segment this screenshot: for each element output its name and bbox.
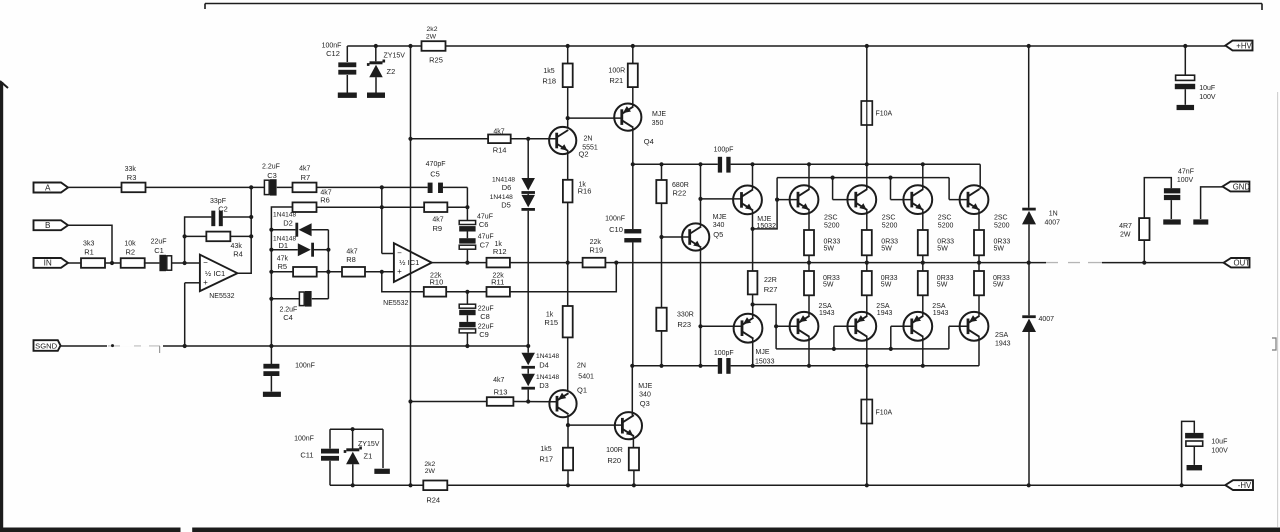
- svg-text:NE5532: NE5532: [209, 293, 234, 300]
- svg-text:100nF: 100nF: [295, 363, 315, 370]
- svg-text:3k3: 3k3: [83, 241, 94, 248]
- svg-text:1N4148: 1N4148: [536, 374, 559, 381]
- svg-text:½ IC1: ½ IC1: [205, 269, 225, 278]
- svg-text:Q5: Q5: [713, 230, 723, 239]
- svg-text:2SC: 2SC: [882, 214, 896, 221]
- svg-text:4007: 4007: [1039, 316, 1055, 323]
- svg-text:10uF: 10uF: [1199, 85, 1215, 92]
- svg-text:2N: 2N: [584, 136, 593, 143]
- svg-text:R21: R21: [609, 76, 623, 85]
- svg-text:NE5532: NE5532: [383, 300, 408, 307]
- svg-text:1943: 1943: [877, 310, 893, 317]
- svg-text:47nF: 47nF: [1178, 169, 1194, 176]
- svg-text:22R: 22R: [764, 277, 777, 284]
- svg-text:MJE: MJE: [713, 214, 727, 221]
- svg-text:100nF: 100nF: [605, 216, 625, 223]
- svg-text:R1: R1: [84, 248, 94, 257]
- svg-text:100V: 100V: [1199, 94, 1216, 101]
- svg-text:2SA: 2SA: [876, 303, 890, 310]
- svg-text:R20: R20: [607, 456, 621, 465]
- svg-text:Q4: Q4: [644, 137, 654, 146]
- svg-text:C9: C9: [479, 330, 489, 339]
- svg-text:2W: 2W: [425, 468, 436, 475]
- svg-text:R2: R2: [126, 248, 136, 257]
- svg-text:ZY15V: ZY15V: [384, 53, 406, 60]
- svg-text:100pF: 100pF: [714, 147, 734, 154]
- svg-text:D3: D3: [539, 381, 549, 390]
- svg-text:+: +: [397, 267, 402, 276]
- svg-text:1k5: 1k5: [543, 68, 554, 75]
- svg-text:R3: R3: [127, 173, 137, 182]
- svg-text:1N: 1N: [1049, 211, 1058, 218]
- svg-text:R7: R7: [301, 173, 311, 182]
- svg-text:D6: D6: [502, 183, 512, 192]
- svg-text:D2: D2: [283, 218, 293, 227]
- svg-text:D1: D1: [279, 241, 289, 250]
- svg-text:OUT: OUT: [1234, 259, 1251, 268]
- svg-text:4k7: 4k7: [493, 377, 504, 384]
- svg-text:IN: IN: [44, 259, 52, 268]
- svg-text:2k2: 2k2: [427, 26, 438, 33]
- svg-text:R9: R9: [433, 224, 443, 233]
- svg-text:+: +: [203, 278, 208, 287]
- svg-text:C10: C10: [609, 225, 623, 234]
- svg-text:100V: 100V: [1211, 448, 1228, 455]
- svg-text:5200: 5200: [938, 222, 954, 229]
- svg-text:2SC: 2SC: [824, 214, 838, 221]
- svg-text:R16: R16: [578, 186, 592, 195]
- svg-text:B: B: [45, 221, 51, 230]
- svg-text:5W: 5W: [824, 245, 835, 252]
- svg-text:100nF: 100nF: [294, 436, 314, 443]
- svg-text:R11: R11: [491, 278, 504, 287]
- svg-text:+HV: +HV: [1236, 41, 1252, 50]
- svg-text:R17: R17: [539, 455, 553, 464]
- svg-text:4k7: 4k7: [493, 129, 504, 136]
- svg-text:ZY15V: ZY15V: [358, 441, 380, 448]
- svg-text:GND: GND: [1233, 182, 1251, 191]
- svg-text:F10A: F10A: [876, 410, 893, 417]
- svg-text:5W: 5W: [994, 245, 1005, 252]
- svg-text:2k2: 2k2: [424, 461, 435, 468]
- svg-text:470pF: 470pF: [426, 161, 446, 168]
- svg-text:5W: 5W: [823, 282, 834, 289]
- svg-text:Q1: Q1: [577, 386, 587, 395]
- svg-text:1N4148: 1N4148: [536, 353, 559, 360]
- svg-text:Z1: Z1: [364, 452, 373, 461]
- svg-text:R23: R23: [677, 320, 691, 329]
- svg-text:R15: R15: [544, 318, 558, 327]
- svg-text:−: −: [203, 258, 208, 267]
- svg-text:R24: R24: [426, 496, 440, 505]
- svg-text:2SA: 2SA: [932, 303, 946, 310]
- svg-text:−: −: [397, 248, 402, 257]
- svg-text:5W: 5W: [937, 245, 948, 252]
- svg-text:4R7: 4R7: [1119, 223, 1132, 230]
- svg-text:Q3: Q3: [640, 399, 650, 408]
- svg-text:C4: C4: [283, 313, 293, 322]
- svg-text:5W: 5W: [993, 282, 1004, 289]
- svg-text:2SC: 2SC: [938, 214, 952, 221]
- svg-text:R14: R14: [493, 146, 507, 155]
- svg-text:5200: 5200: [994, 222, 1010, 229]
- svg-text:2N: 2N: [577, 362, 586, 369]
- svg-text:R4: R4: [233, 250, 243, 259]
- svg-text:100pF: 100pF: [714, 350, 734, 357]
- svg-text:-HV: -HV: [1238, 481, 1252, 490]
- svg-text:5W: 5W: [937, 282, 948, 289]
- svg-text:5200: 5200: [824, 222, 840, 229]
- svg-text:R6: R6: [320, 196, 330, 205]
- svg-text:D5: D5: [501, 200, 511, 209]
- svg-text:C1: C1: [154, 246, 164, 255]
- svg-text:Z2: Z2: [387, 67, 396, 76]
- svg-text:5200: 5200: [882, 222, 898, 229]
- svg-text:R22: R22: [673, 189, 687, 198]
- svg-text:D4: D4: [539, 361, 549, 370]
- svg-text:10k: 10k: [124, 241, 136, 248]
- svg-text:½ IC1: ½ IC1: [399, 258, 419, 267]
- svg-text:C2: C2: [218, 205, 228, 214]
- svg-text:C7: C7: [480, 240, 490, 249]
- svg-text:C11: C11: [300, 451, 313, 460]
- svg-text:R12: R12: [493, 247, 507, 256]
- svg-text:MJE: MJE: [638, 383, 652, 390]
- svg-text:C5: C5: [430, 170, 440, 179]
- svg-text:MJE: MJE: [757, 216, 771, 223]
- svg-text:2SA: 2SA: [995, 332, 1009, 339]
- svg-text:R8: R8: [346, 255, 356, 264]
- svg-text:C6: C6: [479, 220, 489, 229]
- svg-text:R19: R19: [589, 246, 603, 255]
- svg-text:340: 340: [713, 222, 725, 229]
- svg-text:1943: 1943: [995, 341, 1011, 348]
- svg-text:R27: R27: [764, 285, 778, 294]
- svg-text:5W: 5W: [881, 282, 892, 289]
- svg-text:340: 340: [639, 392, 651, 399]
- svg-text:R25: R25: [429, 56, 443, 65]
- svg-text:10uF: 10uF: [1211, 439, 1227, 446]
- svg-text:100V: 100V: [1177, 177, 1194, 184]
- svg-text:100R: 100R: [606, 447, 623, 454]
- svg-text:C8: C8: [480, 312, 490, 321]
- svg-text:MJE: MJE: [652, 111, 666, 118]
- svg-text:4k7: 4k7: [299, 166, 310, 173]
- svg-text:1k5: 1k5: [540, 446, 551, 453]
- svg-text:SGND: SGND: [35, 341, 57, 350]
- svg-text:33k: 33k: [125, 166, 137, 173]
- svg-text:2SC: 2SC: [994, 214, 1008, 221]
- svg-text:330R: 330R: [677, 311, 694, 318]
- svg-text:22uF: 22uF: [151, 239, 167, 246]
- svg-text:1943: 1943: [819, 310, 835, 317]
- svg-text:2SA: 2SA: [819, 303, 833, 310]
- svg-text:C12: C12: [326, 49, 340, 58]
- svg-text:2.2uF: 2.2uF: [262, 164, 280, 171]
- svg-text:350: 350: [652, 120, 664, 127]
- svg-text:R18: R18: [542, 76, 556, 85]
- svg-text:100R: 100R: [608, 67, 625, 74]
- svg-text:MJE: MJE: [756, 349, 770, 356]
- svg-text:15033: 15033: [755, 359, 775, 366]
- svg-text:F10A: F10A: [876, 111, 893, 118]
- svg-text:2W: 2W: [426, 33, 437, 40]
- svg-text:R10: R10: [430, 278, 444, 287]
- svg-text:Q2: Q2: [578, 149, 588, 158]
- svg-text:5W: 5W: [881, 245, 892, 252]
- svg-text:R5: R5: [278, 262, 288, 271]
- svg-text:1943: 1943: [933, 310, 949, 317]
- svg-text:5401: 5401: [578, 374, 594, 381]
- svg-text:A: A: [45, 183, 51, 192]
- svg-text:C3: C3: [267, 171, 277, 180]
- svg-text:4k7: 4k7: [432, 216, 443, 223]
- svg-text:4007: 4007: [1045, 220, 1061, 227]
- svg-text:2W: 2W: [1120, 232, 1131, 239]
- svg-text:R13: R13: [494, 387, 508, 396]
